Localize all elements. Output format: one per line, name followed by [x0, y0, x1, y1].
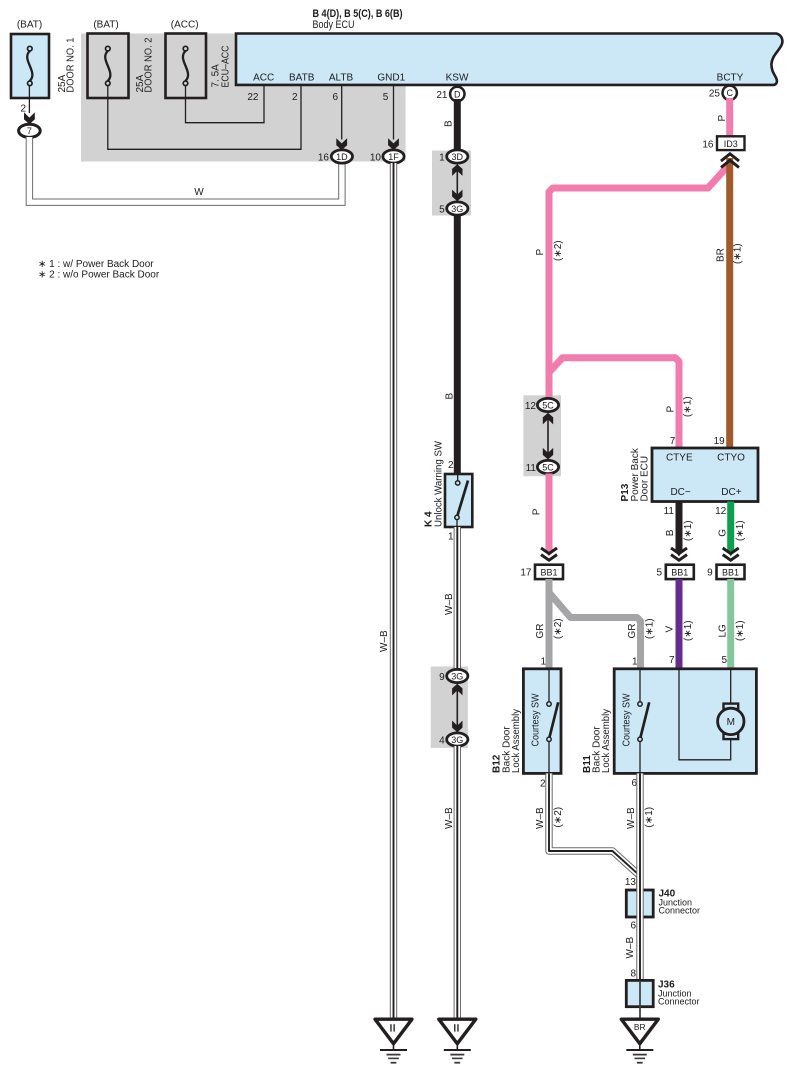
wire B KSW from D to 3D	[454, 99, 461, 151]
svg-text:9: 9	[707, 568, 713, 579]
svg-text:16: 16	[318, 152, 330, 163]
pin 2 label fuse1	[20, 104, 26, 115]
svg-text:19: 19	[714, 436, 726, 447]
arrow into connector 1F	[388, 138, 399, 150]
svg-text:W–B: W–B	[626, 807, 637, 829]
motor assembly B11 Back Door Lock Assembly	[614, 669, 756, 774]
fuse 25A DOOR NO.2	[88, 34, 129, 99]
label W-B left chain	[379, 630, 390, 652]
wire W from node 7 to connector 1D	[29, 137, 342, 202]
Body ECU title	[313, 8, 403, 31]
ECU pin name BATB	[289, 73, 315, 84]
ECU pin circle D	[450, 87, 464, 101]
svg-text:BR: BR	[716, 248, 727, 262]
svg-text:6: 6	[332, 92, 338, 103]
svg-text:7: 7	[669, 655, 675, 666]
svg-text:Door ECU: Door ECU	[639, 456, 650, 502]
label BR (*1)	[716, 243, 744, 264]
chevrons into BB1-5	[671, 548, 687, 560]
svg-text:2: 2	[540, 778, 546, 789]
ECU pin number 2	[292, 92, 298, 103]
svg-text:3D: 3D	[452, 152, 464, 162]
svg-text:12: 12	[715, 506, 727, 517]
wire fuse1 to node 7	[28, 86, 30, 114]
label V (*1)	[665, 620, 695, 641]
label W-B J40-J36	[625, 937, 636, 959]
motor M	[718, 704, 744, 740]
ECU pin number 25	[709, 88, 721, 99]
svg-text:C: C	[726, 88, 733, 98]
svg-text:BATB: BATB	[289, 73, 315, 84]
svg-text:12: 12	[525, 401, 537, 412]
svg-text:Courtesy SW: Courtesy SW	[621, 693, 632, 747]
pin 1 label K4	[448, 532, 454, 543]
connector transition arrows 3D-3G	[452, 164, 462, 201]
junction connector J36 box	[626, 980, 653, 1020]
wire ACC pin22 to ECU-ACC fuse	[186, 85, 265, 123]
B12 component labels	[492, 709, 522, 773]
chevrons into BB1-17	[541, 548, 557, 560]
svg-text:Unlock Warning SW: Unlock Warning SW	[434, 440, 445, 527]
svg-text:Body ECU: Body ECU	[313, 19, 355, 31]
ECU pin name GND1	[377, 73, 405, 84]
svg-text:(∗2): (∗2)	[553, 240, 564, 261]
svg-text:(∗1): (∗1)	[645, 618, 656, 639]
ECU P13 Power Back Door ECU box	[652, 448, 758, 502]
svg-text:2: 2	[292, 92, 298, 103]
pin 5 label 3G	[439, 204, 445, 215]
pin 1 label B12	[540, 657, 546, 668]
ground BR triangle right	[621, 1019, 658, 1062]
svg-text:ECU–ACC: ECU–ACC	[221, 46, 232, 88]
connector ID3	[717, 136, 745, 150]
pin 17 label	[520, 568, 532, 579]
wire W-B from B12 pin2 joining B11 ground run	[549, 773, 640, 891]
label B upper	[444, 120, 455, 127]
svg-text:Lock Assembly: Lock Assembly	[601, 709, 612, 773]
pin 13 label J40	[625, 877, 637, 888]
label GR (*2)	[535, 618, 564, 639]
connector oval 3G	[447, 202, 468, 215]
svg-text:5: 5	[383, 92, 389, 103]
svg-text:5C: 5C	[542, 400, 554, 410]
fuse rating text 7.5A ECU-ACC	[211, 46, 232, 88]
note *2 w/o Power Back Door	[38, 269, 160, 280]
connector oval 5C-11	[537, 460, 558, 473]
svg-text:∗ 1 : w/ Power Back Door: ∗ 1 : w/ Power Back Door	[38, 259, 154, 270]
svg-text:B: B	[445, 393, 456, 400]
svg-text:W–B: W–B	[379, 630, 390, 652]
pin 4 label	[439, 735, 445, 746]
ground IG triangle middle	[439, 1019, 476, 1062]
svg-text:KSW: KSW	[446, 73, 469, 84]
wire P from BCTY C to ID3	[726, 98, 733, 138]
svg-text:DC−: DC−	[670, 487, 690, 498]
pin 6 label B11	[631, 778, 637, 789]
svg-text:D: D	[454, 89, 461, 99]
switch B12 Back Door Lock Assembly	[523, 669, 561, 774]
ECU pin circle C	[723, 86, 737, 100]
svg-text:(ACC): (ACC)	[171, 20, 199, 31]
connector BB1-5	[666, 565, 694, 579]
svg-text:(∗2): (∗2)	[553, 807, 564, 828]
arrow into node 7	[24, 112, 35, 124]
svg-text:CTYE: CTYE	[666, 453, 693, 464]
svg-text:B: B	[444, 120, 455, 127]
ground IG triangle left	[375, 1019, 412, 1062]
ECU pin number 21	[436, 90, 448, 101]
svg-text:7: 7	[670, 436, 676, 447]
svg-text:11: 11	[664, 506, 675, 517]
fuse rating text 25A DOOR NO.1	[57, 37, 77, 92]
fuse 25A DOOR NO.1	[11, 34, 49, 98]
svg-text:1: 1	[632, 657, 638, 668]
label W	[194, 187, 204, 198]
svg-text:5: 5	[656, 568, 662, 579]
label W-B K4 lower	[444, 807, 455, 829]
gray panel connector 3D-3G	[432, 151, 471, 216]
svg-text:1D: 1D	[336, 152, 348, 162]
label B lower	[445, 393, 456, 400]
svg-text:3G: 3G	[451, 735, 463, 745]
svg-text:BB1: BB1	[671, 567, 688, 577]
svg-text:Lock Assembly: Lock Assembly	[511, 709, 522, 773]
svg-text:21: 21	[436, 90, 448, 101]
pin 16 label ID3	[702, 139, 714, 150]
svg-text:10: 10	[370, 152, 382, 163]
chevrons into BB1-9	[723, 548, 739, 560]
svg-text:GR: GR	[627, 624, 638, 639]
Body ECU box	[236, 34, 782, 85]
connector oval 3G-9	[447, 669, 468, 682]
svg-text:W: W	[194, 187, 204, 198]
label GR (*1)	[627, 618, 656, 639]
pin 16 label 1D	[318, 152, 330, 163]
fuse ECU-ACC label (ACC)	[171, 20, 199, 31]
svg-text:7: 7	[27, 126, 32, 136]
svg-text:1: 1	[540, 657, 546, 668]
svg-text:DC+: DC+	[721, 487, 741, 498]
svg-text:∗ 2 : w/o Power Back Door: ∗ 2 : w/o Power Back Door	[38, 269, 160, 280]
fuse 7.5A ECU-ACC	[166, 34, 207, 99]
svg-text:G: G	[718, 529, 729, 537]
pin 19 label CTYO	[714, 436, 726, 447]
gray panel connector 5C-5C	[523, 395, 561, 476]
pin 11 label DC-	[664, 506, 675, 517]
connector transition arrows 5C-5C	[543, 413, 553, 460]
note *1 w/ Power Back Door	[38, 259, 154, 270]
svg-text:13: 13	[625, 877, 637, 888]
svg-text:LG: LG	[718, 624, 729, 638]
J40 labels	[659, 889, 701, 916]
svg-text:Connector: Connector	[658, 997, 700, 1007]
P13 component labels	[620, 447, 650, 501]
svg-text:8: 8	[630, 968, 636, 979]
svg-text:3G: 3G	[451, 671, 463, 681]
pin 11 label	[526, 463, 537, 474]
svg-text:GR: GR	[535, 624, 546, 639]
gray harness panel top	[81, 34, 406, 162]
ECU pin number 22	[247, 92, 259, 103]
svg-text:BR: BR	[634, 1022, 646, 1032]
svg-text:11: 11	[526, 463, 537, 474]
svg-text:DOOR NO. 1: DOOR NO. 1	[66, 37, 77, 92]
arrow into connector 1D	[336, 138, 347, 150]
wire W-B from 3G-4 to ground	[454, 746, 461, 1020]
wire BATB pin2 to DOOR NO.2 fuse	[108, 85, 301, 149]
svg-text:W–B: W–B	[625, 937, 636, 959]
wire GND1 pin5 stub	[393, 85, 395, 140]
pin 9 label BB1	[707, 568, 713, 579]
pin 2 label B12	[540, 778, 546, 789]
label P (*1) CTYE branch	[666, 396, 694, 417]
svg-text:P: P	[535, 249, 546, 256]
pin 5 label BB1	[656, 568, 662, 579]
wire GR from BB1-17 to B12 pin1	[546, 579, 553, 670]
svg-text:(∗1): (∗1)	[735, 520, 746, 541]
pin 12 label DC+	[715, 506, 727, 517]
ECU pin name KSW	[446, 73, 469, 84]
svg-text:2: 2	[20, 104, 26, 115]
fuse rating text 25A DOOR NO.2	[135, 37, 155, 92]
J36 labels	[658, 980, 700, 1007]
svg-text:6: 6	[630, 920, 636, 931]
pin 10 label 1F	[370, 152, 382, 163]
wire BR brown from ID3 to CTYO	[726, 158, 733, 449]
svg-text:1F: 1F	[388, 152, 399, 162]
connector oval 3G-4	[447, 733, 468, 746]
svg-text:(BAT): (BAT)	[17, 20, 42, 31]
svg-text:(∗1): (∗1)	[683, 520, 694, 541]
ECU pin name ACC	[253, 73, 274, 84]
svg-text:16: 16	[702, 139, 714, 150]
gray panel connector 3G-3G lower	[431, 667, 468, 748]
pin 9 label	[439, 672, 445, 683]
svg-text:ACC: ACC	[253, 73, 274, 84]
ECU pin name BCTY	[717, 73, 744, 84]
connector transition arrows 3G-3G	[452, 684, 462, 732]
wire P from 5C-11 to BB1-17	[546, 474, 552, 557]
label G (*1)	[718, 520, 747, 541]
label P lower	[532, 508, 543, 515]
svg-text:(∗1): (∗1)	[644, 807, 655, 828]
switch K4 Unlock Warning SW	[445, 474, 472, 527]
ECU pin name ALTB	[329, 73, 354, 84]
wire P branch to CTYE	[549, 358, 679, 449]
pin 12 label	[525, 401, 537, 412]
svg-text:W–B: W–B	[444, 807, 455, 829]
svg-text:W–B: W–B	[444, 593, 455, 615]
svg-text:(BAT): (BAT)	[93, 20, 118, 31]
pin 1 label 3D	[439, 152, 445, 163]
svg-text:1: 1	[439, 152, 445, 163]
wire W-B from 1F to ground	[390, 163, 397, 1020]
label B (*1)	[665, 520, 694, 541]
wire W-B from B11 pin6 through J40 to J36	[636, 773, 643, 1007]
fuse DOOR NO.1 label (BAT)	[17, 20, 42, 31]
connector BB1-17	[535, 565, 563, 579]
svg-text:ALTB: ALTB	[329, 73, 354, 84]
label W-B (*2)	[535, 807, 564, 829]
svg-text:5: 5	[439, 204, 445, 215]
svg-text:P: P	[717, 115, 728, 122]
pin 2 label K4	[448, 460, 454, 471]
B11 component labels	[582, 709, 612, 773]
svg-text:25: 25	[709, 88, 721, 99]
svg-text:5C: 5C	[542, 462, 554, 472]
label P (*2) vertical pink	[535, 240, 564, 261]
svg-text:2: 2	[448, 460, 454, 471]
svg-text:1: 1	[448, 532, 454, 543]
svg-text:P: P	[532, 508, 543, 515]
wire W-B from K4 to 3G lower	[454, 527, 461, 670]
wire P branch ID3 to vertical pink run	[549, 164, 730, 398]
connector oval 1D	[331, 150, 352, 163]
connector oval 1F	[383, 150, 404, 163]
connector oval 3D	[447, 150, 468, 163]
wire B from DC- to BB1-5	[676, 502, 682, 557]
pin 7 label CTYE	[670, 436, 676, 447]
svg-text:W–B: W–B	[535, 807, 546, 829]
connector BB1-9	[717, 565, 745, 579]
svg-text:17: 17	[520, 568, 532, 579]
ECU pin number 5	[383, 92, 389, 103]
svg-text:4: 4	[439, 735, 445, 746]
K4 component labels	[424, 440, 445, 527]
ECU pin number 6	[332, 92, 338, 103]
svg-text:BB1: BB1	[540, 567, 557, 577]
svg-text:(∗1): (∗1)	[683, 396, 694, 417]
splice chevrons below ID3	[721, 154, 739, 168]
wire V from BB1-5 to B11 pin7	[676, 579, 683, 670]
label P BCTY	[717, 115, 728, 122]
wire B from 3G to K4	[454, 215, 461, 474]
wire GR branch to B11 pin1	[549, 593, 641, 671]
svg-text:Connector: Connector	[659, 906, 701, 916]
pin 1 label B11	[632, 657, 638, 668]
svg-text:M: M	[727, 717, 735, 728]
svg-text:22: 22	[247, 92, 259, 103]
wire ALTB pin6 stub	[341, 85, 343, 140]
pin 5 label B11	[721, 655, 727, 666]
pin 6 label J40 bottom	[630, 920, 636, 931]
wire G from DC+ to BB1-9	[728, 502, 734, 557]
svg-text:V: V	[665, 626, 676, 633]
svg-text:B: B	[665, 529, 676, 536]
fuse DOOR NO.2 label (BAT)	[93, 20, 118, 31]
svg-text:(∗1): (∗1)	[733, 243, 744, 264]
svg-text:DOOR NO. 2: DOOR NO. 2	[144, 37, 155, 92]
svg-text:3G: 3G	[451, 204, 463, 214]
label LG (*1)	[718, 620, 747, 641]
svg-text:(∗1): (∗1)	[683, 620, 694, 641]
svg-text:CTYO: CTYO	[717, 453, 745, 464]
svg-text:GND1: GND1	[377, 73, 405, 84]
label W-B K4 upper	[444, 593, 455, 615]
svg-text:ID3: ID3	[724, 139, 738, 149]
connector oval 5C-12	[537, 398, 558, 411]
svg-text:BCTY: BCTY	[717, 73, 744, 84]
svg-text:Courtesy SW: Courtesy SW	[531, 693, 542, 747]
svg-text:5: 5	[721, 655, 727, 666]
wire LG from BB1-9 to B11 pin5	[727, 579, 734, 670]
pin 7 label B11	[669, 655, 675, 666]
svg-text:BB1: BB1	[722, 567, 739, 577]
svg-text:(∗1): (∗1)	[735, 620, 746, 641]
label W-B (*1)	[626, 807, 655, 829]
junction connector J40 box	[626, 890, 653, 917]
svg-text:(∗2): (∗2)	[553, 618, 564, 639]
svg-text:9: 9	[439, 672, 445, 683]
node 7 oval	[19, 124, 41, 137]
pin 8 label J36	[630, 968, 636, 979]
svg-text:P: P	[666, 406, 677, 413]
